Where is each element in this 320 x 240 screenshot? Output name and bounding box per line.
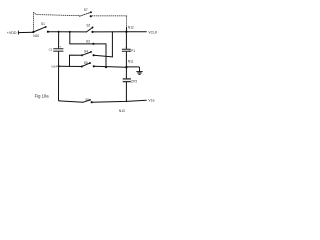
wire N12 down to CP1 (125, 32, 127, 49)
switch S1 (32, 26, 49, 33)
wire rowC left (59, 65, 82, 67)
svg-text:N10: N10 (33, 34, 39, 38)
wire bottom rail right to Vss (92, 100, 147, 102)
label +VDD (7, 31, 17, 35)
capacitor C1 (53, 48, 63, 52)
label C1 plus mark (60, 44, 62, 48)
wire dashed S7 to N12 (92, 15, 126, 17)
svg-text:S5: S5 (85, 97, 89, 101)
wire dashed top horizontal (34, 13, 80, 16)
label S1 (41, 22, 45, 26)
label S3 (86, 40, 90, 44)
svg-text:Vss: Vss (148, 99, 154, 103)
svg-text:+: + (60, 44, 62, 48)
node S3 contact (92, 43, 94, 45)
wire N11 to ground (126, 67, 139, 71)
svg-text:S1: S1 (41, 22, 45, 26)
label N11 (128, 59, 134, 63)
label C1 (49, 48, 53, 52)
wire C1 bottom lead (59, 52, 60, 101)
svg-text:S7: S7 (84, 8, 88, 12)
svg-text:N12: N12 (128, 25, 134, 29)
node C1 lead junction (58, 65, 60, 67)
ground (137, 72, 143, 75)
label CP1 (129, 49, 135, 53)
wire VDD to S1 (18, 31, 33, 33)
node rail junction (126, 100, 128, 102)
wire CP1 to N11 (125, 52, 127, 67)
svg-text:S4: S4 (84, 49, 88, 53)
label S5 (85, 97, 89, 101)
node VDD terminal bar (17, 31, 19, 34)
wire S6 to N11 (94, 65, 127, 68)
label S7 (84, 8, 88, 12)
wire CP2 to bottom rail (125, 82, 127, 101)
switch S5 (83, 99, 93, 103)
svg-text:S2: S2 (86, 24, 90, 28)
label CP2 (131, 80, 137, 84)
capacitor CP1 (122, 49, 131, 52)
label N13 (119, 109, 125, 113)
wire C1 top lead (58, 32, 60, 49)
wire rowA right drop (105, 44, 107, 67)
node N12 (125, 31, 127, 33)
capacitor CP2 (123, 78, 131, 82)
wire dashed N12 drop (126, 16, 128, 27)
svg-text:S3: S3 (86, 40, 90, 44)
node junction rowA top (69, 31, 71, 33)
wire S1 to S2 (top rail) (48, 31, 87, 33)
wire vertical B to top rail (111, 32, 113, 57)
svg-text:N14: N14 (51, 65, 57, 69)
switch S7 (80, 11, 92, 17)
node rowA to rowC junction (105, 66, 107, 68)
wire rowA vertical (69, 32, 71, 44)
wire bottom rail left (59, 101, 83, 102)
label VCLK (148, 30, 158, 34)
svg-text:CP1: CP1 (129, 49, 135, 53)
svg-text:CP2: CP2 (131, 80, 137, 84)
node N11 (125, 66, 127, 68)
svg-text:S6: S6 (84, 61, 88, 65)
wire S2 to VCLK output (94, 31, 147, 33)
node CP1 top tick (126, 47, 127, 48)
label S6 (84, 61, 88, 65)
label N12 (128, 25, 134, 29)
svg-text:C1: C1 (49, 48, 53, 52)
wire N11 down to CP2 (125, 67, 127, 78)
node junction C1 top (58, 31, 60, 33)
wire dashed control S1 (vertical) (33, 13, 35, 31)
wire solid into N12 (126, 27, 128, 32)
label Vss (148, 99, 154, 103)
label N14 (51, 65, 57, 69)
svg-text:Fig 10a: Fig 10a (35, 94, 50, 99)
svg-text:VCLK: VCLK (148, 30, 158, 34)
wire rowB left corner (70, 55, 83, 66)
svg-text:+VDD: +VDD (7, 31, 17, 35)
svg-text:N11: N11 (128, 59, 134, 63)
switch S2 (87, 27, 94, 34)
label N10 (33, 34, 39, 38)
wire S4 to vertical B (94, 55, 113, 57)
label S2 (86, 24, 90, 28)
switch S6 (81, 62, 95, 67)
switch S4 (81, 51, 95, 56)
svg-text:N13: N13 (119, 109, 125, 113)
wire rowA (S3 closed) (70, 43, 106, 45)
label S4 (84, 49, 88, 53)
label Fig 10a (35, 94, 50, 99)
